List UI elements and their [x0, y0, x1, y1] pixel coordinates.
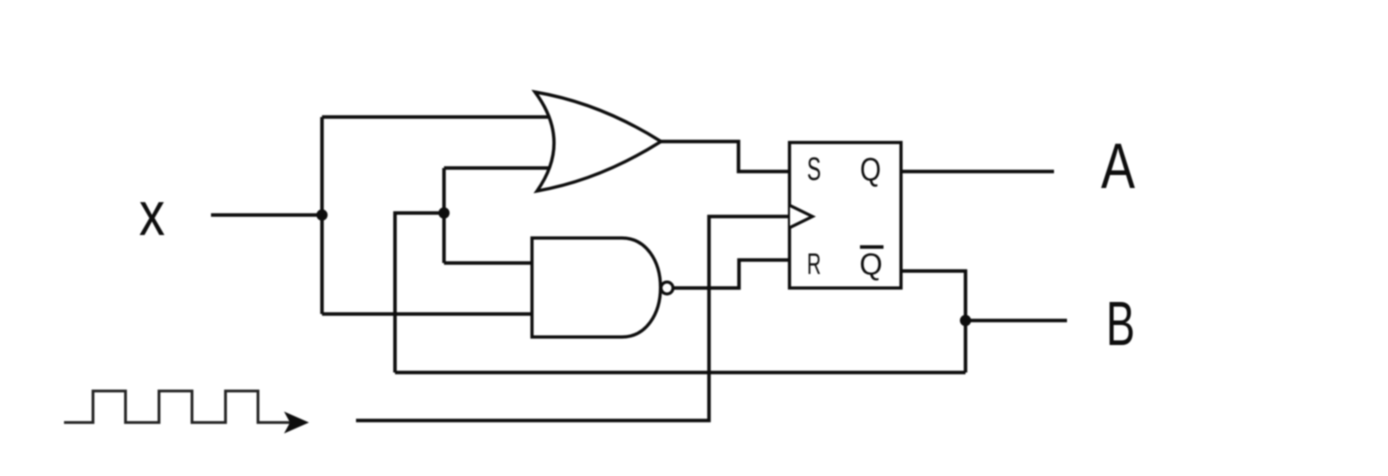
wire: B node to label B: [966, 319, 1068, 323]
wire: NAND output to R input: [673, 260, 790, 288]
wire: OR gate top input: [322, 115, 570, 119]
wire: junction2 vertical bus: [442, 168, 446, 263]
svg-text:R: R: [807, 248, 821, 281]
wire: OR gate bottom input: [444, 166, 570, 170]
svg-text:x: x: [139, 180, 165, 249]
node: clock arrowhead: [284, 412, 309, 434]
op-amp: OR gate U1: [535, 92, 661, 191]
wire: junction1 vertical bus: [320, 117, 324, 314]
svg-text:B: B: [1106, 290, 1135, 359]
node: junction on x input: [316, 209, 327, 220]
wire: Qbar output down to B node: [901, 271, 966, 373]
wire: clock waveform: [64, 391, 297, 423]
wire: OR output to S input: [660, 142, 790, 172]
node: NAND inverter bubble: [661, 282, 673, 294]
svg-text:S: S: [807, 151, 821, 187]
op-amp: NAND gate U2 body: [532, 238, 661, 337]
node: clock edge triangle: [790, 206, 813, 228]
svg-text:Q: Q: [860, 247, 883, 282]
wire: NAND gate bottom input: [322, 312, 545, 316]
node: junction2 feedback split: [438, 207, 449, 218]
wire: input x to junction: [211, 213, 322, 217]
wire: feedback riser to junction2: [395, 213, 444, 373]
wire: Q output to A: [901, 170, 1054, 174]
wire: overline of Qbar: [860, 245, 884, 249]
svg-text:A: A: [1101, 130, 1135, 202]
svg-text:Q: Q: [860, 152, 881, 188]
wire: clock line to clock input: [356, 217, 790, 421]
wire: feedback bottom run: [395, 371, 966, 375]
op-amp: SR flip-flop U3 body: [790, 143, 902, 289]
node: junction on Qbar/B: [960, 315, 971, 326]
wire: NAND gate top input: [444, 261, 545, 265]
